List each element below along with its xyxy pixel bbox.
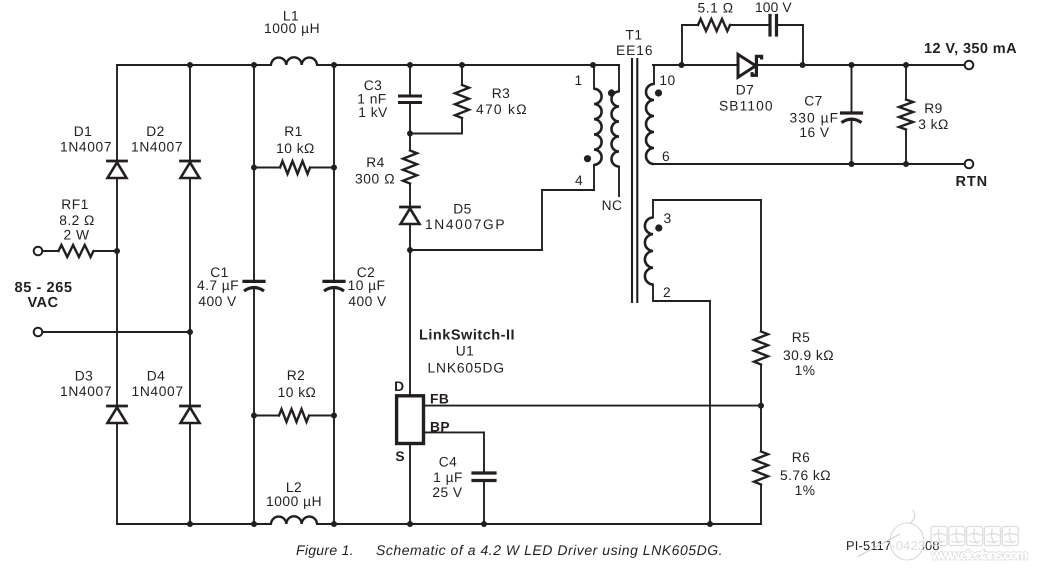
diode D2 1N4007	[181, 160, 200, 163]
svg-text:1000 µH: 1000 µH	[264, 21, 320, 36]
wire secondary top rail (pin 10 to output)	[653, 64, 965, 66]
wire primary pin4 drop	[593, 165, 595, 190]
svg-text:RTN: RTN	[956, 174, 988, 190]
svg-text:T1: T1	[625, 28, 642, 43]
diode D5 1N4007GP	[401, 206, 420, 209]
svg-text:100 V: 100 V	[755, 0, 792, 15]
wire R1 leads	[254, 167, 280, 169]
node R1 left	[251, 165, 257, 171]
svg-text:10 kΩ: 10 kΩ	[276, 141, 315, 156]
watermark logo circle	[890, 523, 924, 560]
wire C3/R4/D5 column segments	[409, 65, 411, 96]
transformer bias winding (pins 3-2)	[645, 218, 653, 285]
svg-text:D2: D2	[146, 124, 165, 139]
phase dot secondary	[655, 89, 662, 96]
wire R9 column	[905, 65, 907, 100]
node top rail C1	[251, 62, 257, 68]
phase dot bias winding	[655, 224, 662, 231]
node snubber right	[800, 62, 806, 68]
transformer primary winding (pins 1-4)	[594, 89, 602, 165]
diode D3 1N4007	[108, 405, 127, 408]
capacitor C4 1uF 25V	[473, 471, 495, 474]
resistor R6 5.76k 1%	[754, 452, 768, 485]
svg-text:1N4007: 1N4007	[60, 384, 112, 399]
svg-text:1N4007: 1N4007	[60, 140, 112, 155]
wire AC input neutral line	[43, 331, 191, 333]
diode D1 1N4007	[108, 160, 127, 163]
wire C1 column lower	[253, 289, 255, 524]
svg-text:1N4007: 1N4007	[131, 140, 183, 155]
inductor L2 1000uH	[271, 516, 317, 524]
svg-text:1 kV: 1 kV	[358, 105, 388, 120]
node R2 right	[331, 413, 337, 419]
wire top rail right of L1	[317, 64, 619, 66]
terminal output return	[965, 160, 974, 169]
svg-text:2: 2	[663, 285, 671, 300]
capacitor C2 10uF 400V	[324, 280, 344, 283]
capacitor C7 330uF 16V	[842, 111, 862, 114]
wire snubber left leg	[682, 25, 698, 65]
wire R5/R6 mid link	[760, 365, 762, 452]
wire U1 source to bottom rail	[409, 444, 411, 525]
resistor R1 10k	[280, 161, 310, 174]
wire AC input line (RF1 to bridge)	[43, 250, 59, 252]
svg-text:C7: C7	[804, 94, 823, 109]
svg-text:25 V: 25 V	[432, 485, 463, 500]
diode D4 1N4007	[181, 405, 200, 408]
node top rail R3	[459, 62, 465, 68]
node R1 right	[331, 165, 337, 171]
svg-text:S: S	[395, 449, 405, 464]
wire C7 column lower	[851, 120, 853, 164]
node D5 anode junction	[407, 247, 413, 253]
svg-text:D1: D1	[74, 124, 93, 139]
node C7 bottom	[849, 161, 855, 167]
wire snubber middle	[730, 24, 770, 26]
wire NC winding stub	[618, 167, 620, 197]
wire NC winding top	[618, 65, 620, 92]
svg-text:D4: D4	[147, 369, 166, 384]
wire bottom rail right of L2	[317, 523, 761, 525]
wire BP line to C4	[424, 432, 485, 473]
svg-text:U1: U1	[456, 344, 475, 359]
svg-text:D3: D3	[75, 369, 94, 384]
svg-text:300 Ω: 300 Ω	[355, 172, 395, 187]
node bottom rail C1	[251, 521, 257, 527]
resistor R3 470k	[455, 85, 469, 118]
svg-text:10 µF: 10 µF	[348, 278, 386, 293]
wire C4 to bottom rail	[483, 481, 485, 525]
wire C2 column upper	[333, 65, 335, 280]
svg-text:4: 4	[575, 173, 583, 188]
svg-text:1N4007GP: 1N4007GP	[425, 217, 505, 232]
capacitor C1 4.7uF 400V	[244, 280, 264, 283]
wire staircase node to transformer pin 4	[410, 190, 594, 250]
terminal AC input line	[34, 247, 43, 256]
svg-text:R9: R9	[924, 101, 943, 116]
wire C2 column lower	[333, 289, 335, 524]
svg-text:EE16: EE16	[616, 43, 653, 58]
svg-text:16 V: 16 V	[799, 125, 830, 140]
node bottom rail C4	[481, 521, 487, 527]
node top rail C2	[331, 62, 337, 68]
node RF1 bridge	[114, 248, 120, 254]
svg-text:VAC: VAC	[27, 295, 58, 311]
svg-text:Schematic of a 4.2 W LED Drive: Schematic of a 4.2 W LED Driver using LN…	[376, 542, 723, 558]
svg-text:www.elecfans.com: www.elecfans.com	[931, 548, 1029, 563]
capacitor snubber 100V	[768, 16, 771, 36]
svg-text:LinkSwitch-II: LinkSwitch-II	[419, 328, 515, 344]
svg-text:1N4007: 1N4007	[132, 384, 184, 399]
svg-text:10 kΩ: 10 kΩ	[278, 385, 317, 400]
svg-text:RF1: RF1	[61, 197, 88, 212]
node top rail D2	[187, 62, 193, 68]
svg-text:R2: R2	[287, 368, 306, 383]
svg-text:5.76 kΩ: 5.76 kΩ	[780, 468, 831, 483]
svg-text:C4: C4	[439, 455, 458, 470]
resistor R4 300 ohm	[403, 151, 417, 184]
svg-text:D: D	[394, 379, 404, 394]
svg-text:1: 1	[574, 73, 582, 88]
node bottom rail D2	[187, 521, 193, 527]
wire FB line	[424, 405, 762, 407]
resistor R5 30.9k 1%	[754, 332, 768, 365]
svg-text:BP: BP	[430, 420, 450, 435]
watermark CJK text	[931, 527, 947, 546]
transformer core	[631, 59, 633, 302]
resistor R2 10k	[279, 409, 309, 422]
node bottom rail C2	[331, 521, 337, 527]
wire R2 leads	[254, 415, 279, 417]
wire D1 column	[116, 65, 118, 524]
wire bias pin3 to R5 top	[653, 200, 761, 218]
terminal AC input neutral	[34, 328, 43, 337]
svg-text:R4: R4	[366, 155, 385, 170]
op-amp U1 LNK605DG body	[397, 396, 424, 444]
svg-text:L2: L2	[286, 480, 302, 495]
wire R6 to bottom rail	[760, 485, 762, 525]
svg-text:3 kΩ: 3 kΩ	[918, 117, 949, 132]
wire D2 column	[189, 65, 191, 524]
svg-text:D5: D5	[453, 202, 472, 217]
svg-text:1 µF: 1 µF	[433, 470, 463, 485]
node bottom rail S	[407, 521, 413, 527]
svg-text:LNK605DG: LNK605DG	[428, 361, 505, 376]
svg-text:R5: R5	[792, 330, 811, 345]
svg-text:4.7 µF: 4.7 µF	[197, 278, 239, 293]
svg-text:470 kΩ: 470 kΩ	[476, 102, 527, 117]
svg-text:85 - 265: 85 - 265	[15, 280, 73, 296]
node R2 left	[251, 413, 257, 419]
svg-text:R6: R6	[792, 450, 811, 465]
node R9 bottom	[903, 161, 909, 167]
wire secondary bottom rail (pin 6 to RTN)	[654, 163, 965, 165]
svg-text:FB: FB	[430, 392, 449, 407]
node FB junction	[758, 403, 764, 409]
svg-text:1%: 1%	[795, 363, 816, 378]
svg-text:1%: 1%	[795, 483, 816, 498]
transformer NC winding	[612, 92, 619, 167]
svg-text:5.1 Ω: 5.1 Ω	[698, 1, 734, 16]
node C7 top	[849, 62, 855, 68]
svg-text:Figure 1.: Figure 1.	[296, 542, 354, 558]
svg-text:R3: R3	[492, 86, 511, 101]
wire bottom rail left of L2	[117, 523, 271, 525]
resistor RF1 8.2 ohm fusible	[59, 245, 94, 257]
svg-text:1000 µH: 1000 µH	[266, 494, 322, 509]
svg-text:R1: R1	[284, 124, 303, 139]
svg-text:NC: NC	[602, 198, 623, 213]
svg-text:12 V, 350 mA: 12 V, 350 mA	[924, 41, 1017, 57]
capacitor C3 1nF 1kV	[400, 95, 421, 98]
inductor L1 1000uH	[271, 57, 317, 65]
node C3-R3 junction	[407, 131, 413, 137]
wire C7 column upper	[851, 65, 853, 113]
wire C1 column upper	[253, 65, 255, 280]
terminal output positive	[965, 61, 974, 70]
svg-text:3: 3	[663, 211, 671, 226]
svg-text:400 V: 400 V	[198, 294, 237, 309]
transformer secondary winding (pins 10-6)	[646, 84, 654, 164]
resistor snubber 5.1 ohm	[698, 19, 730, 31]
node bottom rail bias	[707, 521, 713, 527]
wire D5 anode to U1 drain	[409, 250, 411, 396]
node top rail C3	[407, 62, 413, 68]
svg-text:10: 10	[659, 73, 675, 88]
wire bias pin2 to bottom rail	[653, 285, 710, 525]
diode D7 SB1100 schottky	[738, 54, 756, 77]
wire primary pin1 drop	[593, 65, 595, 89]
wire snubber right leg	[777, 25, 804, 65]
svg-text:30.9 kΩ: 30.9 kΩ	[783, 348, 834, 363]
node R9 top	[903, 62, 909, 68]
resistor R9 3k	[899, 100, 913, 130]
wire R5 column upper	[760, 200, 762, 332]
svg-text:6: 6	[662, 149, 670, 164]
phase dot NC winding	[608, 89, 615, 96]
svg-text:8.2 Ω: 8.2 Ω	[59, 213, 95, 228]
node input neutral bridge	[187, 329, 193, 335]
svg-text:2 W: 2 W	[64, 228, 90, 243]
wire R3 column and elbow to node	[461, 65, 463, 85]
svg-text:330 µF: 330 µF	[790, 111, 839, 126]
svg-text:SB1100: SB1100	[719, 99, 773, 114]
svg-text:D7: D7	[736, 83, 755, 98]
node snubber left	[679, 62, 685, 68]
svg-text:400 V: 400 V	[348, 294, 387, 309]
phase dot primary pin4 side	[584, 155, 591, 162]
node pin1 junction	[590, 62, 596, 68]
wire top rail left of L1	[117, 64, 271, 66]
wire secondary pin10 drop	[653, 65, 655, 84]
